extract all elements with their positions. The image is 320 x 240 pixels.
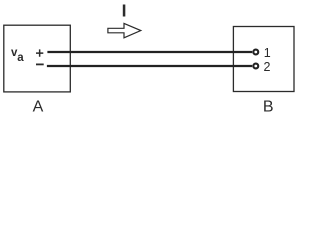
- terminal 2 (open circle): [253, 64, 258, 69]
- svg-text:B: B: [263, 99, 274, 116]
- network box A: [4, 25, 71, 92]
- wire top conductor (terminal 1 lead): [47, 51, 252, 53]
- current block arrow: [108, 23, 141, 37]
- network box B: [233, 27, 294, 92]
- svg-text:2: 2: [264, 60, 271, 74]
- polarity plus sign: [36, 49, 43, 56]
- svg-text:A: A: [33, 99, 44, 116]
- terminal 1 (open circle): [253, 50, 258, 55]
- svg-text:I: I: [122, 1, 127, 21]
- polarity minus sign: [36, 63, 44, 65]
- wire bottom conductor (terminal 2 lead): [47, 65, 252, 67]
- svg-text:a: a: [17, 52, 24, 64]
- svg-text:1: 1: [264, 46, 271, 60]
